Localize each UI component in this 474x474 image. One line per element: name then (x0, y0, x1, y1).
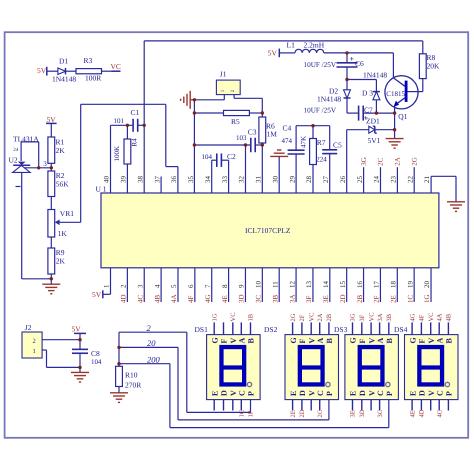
svg-text:18: 18 (389, 281, 397, 289)
svg-text:Q1: Q1 (398, 112, 407, 121)
svg-text:34: 34 (204, 176, 212, 184)
svg-text:39: 39 (120, 176, 128, 184)
svg-text:2A: 2A (317, 313, 324, 321)
svg-text:4B: 4B (153, 295, 161, 304)
svg-text:1G: 1G (211, 313, 218, 321)
svg-text:2E: 2E (290, 410, 297, 417)
svg-text:4E: 4E (221, 295, 229, 303)
svg-text:1K: 1K (58, 229, 68, 238)
svg-text:R4: R4 (131, 138, 139, 147)
svg-text:J2: J2 (25, 323, 32, 332)
svg-text:16: 16 (356, 281, 364, 289)
svg-text:29: 29 (288, 176, 296, 184)
svg-text:20K: 20K (427, 61, 441, 70)
svg-text:2: 2 (33, 338, 36, 345)
svg-text:B: B (445, 338, 454, 344)
svg-text:3F: 3F (359, 314, 366, 321)
svg-text:2E: 2E (389, 295, 397, 303)
svg-text:27: 27 (322, 176, 330, 184)
svg-text:ICL7107CPLZ: ICL7107CPLZ (245, 226, 291, 235)
svg-text:2D: 2D (299, 409, 306, 417)
svg-text:3F: 3F (305, 296, 313, 304)
svg-text:12: 12 (288, 281, 296, 289)
svg-text:10UF /25V: 10UF /25V (304, 61, 337, 69)
svg-text:474: 474 (282, 137, 293, 145)
svg-text:1N4148: 1N4148 (52, 74, 76, 83)
svg-text:DS4: DS4 (394, 325, 408, 334)
svg-text:100R: 100R (85, 74, 101, 83)
svg-text:2.2mH: 2.2mH (304, 40, 325, 49)
svg-text:13: 13 (305, 281, 313, 289)
svg-text:1M: 1M (267, 129, 278, 138)
svg-text:4B: 4B (446, 313, 453, 321)
svg-text:U 1: U 1 (96, 184, 107, 193)
svg-text:3C: 3C (377, 410, 384, 418)
svg-text:B: B (325, 338, 334, 344)
svg-text:A: A (376, 338, 385, 344)
svg-text:5V: 5V (268, 49, 278, 58)
svg-text:2K: 2K (56, 257, 66, 266)
svg-text:P: P (247, 391, 256, 396)
svg-text:24: 24 (13, 147, 19, 153)
svg-text:VC: VC (368, 312, 375, 321)
svg-text:3B: 3B (271, 295, 279, 304)
svg-text:26: 26 (339, 176, 347, 184)
svg-text:C: C (316, 390, 325, 396)
svg-text:L1: L1 (287, 40, 296, 49)
svg-text:22: 22 (406, 176, 414, 184)
svg-text:5: 5 (170, 284, 178, 288)
svg-text:17: 17 (373, 281, 381, 289)
svg-text:VC: VC (428, 312, 435, 321)
svg-text:4G: 4G (204, 294, 212, 303)
svg-text:C5: C5 (333, 140, 342, 149)
svg-text:4A: 4A (170, 294, 178, 303)
svg-text:3D: 3D (238, 294, 246, 303)
svg-text:D: D (220, 390, 229, 396)
svg-text:P: P (385, 391, 394, 396)
svg-text:37: 37 (153, 176, 161, 184)
svg-text:19: 19 (406, 281, 414, 289)
svg-text:C: C (435, 390, 444, 396)
svg-text:20: 20 (423, 281, 431, 289)
svg-text:4D: 4D (419, 409, 426, 417)
svg-text:F: F (418, 339, 427, 344)
svg-text:3A: 3A (288, 294, 296, 303)
svg-text:C3: C3 (248, 127, 257, 136)
svg-text:103: 103 (236, 134, 247, 142)
svg-text:R7: R7 (317, 138, 326, 147)
svg-text:VC: VC (230, 312, 237, 321)
svg-text:C: C (376, 390, 385, 396)
svg-text:3D: 3D (359, 409, 366, 417)
svg-text:40: 40 (103, 176, 111, 184)
svg-text:100K: 100K (113, 146, 121, 162)
svg-text:4: 4 (153, 284, 161, 288)
svg-text:101: 101 (114, 117, 125, 125)
svg-text:DS1: DS1 (195, 325, 209, 334)
svg-text:2B: 2B (356, 295, 364, 304)
svg-text:D: D (418, 390, 427, 396)
svg-text:U2: U2 (9, 155, 18, 164)
svg-text:2G: 2G (290, 313, 297, 321)
svg-text:33: 33 (221, 176, 229, 184)
svg-text:5V1: 5V1 (368, 136, 381, 145)
svg-text:ZD1: ZD1 (366, 117, 380, 126)
svg-text:R3: R3 (84, 56, 93, 65)
svg-text:1C: 1C (406, 295, 414, 304)
svg-text:2F: 2F (373, 296, 381, 304)
svg-text:C1815: C1815 (386, 90, 405, 98)
svg-text:104: 104 (202, 153, 213, 161)
svg-text:2: 2 (120, 284, 128, 288)
svg-text:2G: 2G (410, 157, 418, 166)
svg-text:1N4148: 1N4148 (363, 70, 387, 79)
svg-text:104: 104 (91, 358, 102, 366)
svg-text:3E: 3E (350, 410, 357, 417)
svg-text:C4: C4 (283, 123, 292, 132)
svg-text:C6: C6 (355, 59, 364, 68)
svg-text:5V: 5V (72, 324, 82, 333)
svg-text:3C: 3C (255, 295, 263, 304)
svg-text:E: E (289, 391, 298, 396)
svg-text:2A: 2A (394, 157, 402, 166)
svg-text:5V: 5V (37, 66, 47, 75)
svg-text:D 3: D 3 (362, 88, 373, 97)
svg-text:47K: 47K (299, 136, 307, 148)
svg-text:C2: C2 (227, 152, 236, 161)
svg-text:DS3: DS3 (334, 325, 348, 334)
svg-text:10: 10 (255, 281, 263, 289)
svg-text:VR1: VR1 (60, 209, 74, 218)
svg-text:2D: 2D (339, 294, 347, 303)
svg-text:11: 11 (271, 281, 279, 288)
svg-text:F: F (298, 339, 307, 344)
svg-text:200: 200 (147, 355, 161, 365)
svg-text:1B: 1B (248, 313, 255, 321)
svg-text:35: 35 (187, 176, 195, 184)
svg-text:R5: R5 (231, 117, 240, 126)
svg-text:4G: 4G (409, 313, 416, 321)
svg-text:D1: D1 (59, 57, 68, 66)
svg-text:21: 21 (423, 176, 431, 184)
svg-text:3G: 3G (350, 313, 357, 321)
svg-text:2K: 2K (56, 146, 66, 155)
svg-text:4F: 4F (187, 296, 195, 304)
svg-text:A: A (435, 338, 444, 344)
svg-text:4E: 4E (409, 410, 416, 417)
svg-text:28: 28 (305, 176, 313, 184)
svg-text:B: B (247, 338, 256, 344)
svg-text:P: P (325, 391, 334, 396)
svg-text:24: 24 (373, 176, 381, 184)
svg-text:38: 38 (136, 176, 144, 184)
svg-text:4F: 4F (419, 314, 426, 321)
svg-text:3G: 3G (360, 157, 368, 166)
svg-text:20: 20 (147, 338, 156, 348)
svg-text:VC: VC (111, 62, 121, 71)
svg-text:8: 8 (221, 284, 229, 288)
svg-text:36: 36 (170, 176, 178, 184)
svg-text:25: 25 (356, 176, 364, 184)
svg-text:TL431A: TL431A (13, 134, 39, 143)
svg-text:3B: 3B (386, 313, 393, 321)
svg-text:R10: R10 (125, 370, 138, 379)
svg-text:9: 9 (238, 284, 246, 288)
svg-text:15: 15 (339, 281, 347, 289)
svg-text:2F: 2F (299, 314, 306, 321)
svg-text:5V: 5V (47, 115, 57, 124)
svg-text:1N4148: 1N4148 (317, 94, 341, 103)
svg-text:56K: 56K (56, 180, 70, 189)
svg-text:+: + (350, 55, 355, 64)
svg-text:2C: 2C (317, 410, 324, 418)
svg-text:6: 6 (187, 284, 195, 288)
svg-text:4C: 4C (136, 295, 144, 304)
svg-text:4D: 4D (120, 294, 128, 303)
svg-text:E: E (349, 391, 358, 396)
svg-text:F: F (358, 339, 367, 344)
svg-text:14: 14 (322, 281, 330, 289)
svg-text:7: 7 (204, 284, 212, 288)
svg-text:A: A (238, 338, 247, 344)
svg-text:1: 1 (103, 284, 111, 288)
svg-text:3E: 3E (322, 295, 330, 303)
svg-text:C: C (238, 390, 247, 396)
svg-text:J1: J1 (220, 69, 227, 78)
svg-text:VC: VC (308, 312, 315, 321)
svg-text:4C: 4C (436, 410, 443, 418)
svg-text:3A: 3A (377, 313, 384, 321)
svg-text:C1: C1 (131, 108, 140, 117)
svg-text:E: E (408, 391, 417, 396)
svg-text:3: 3 (43, 160, 47, 168)
svg-text:5V: 5V (92, 290, 102, 299)
svg-text:4A: 4A (436, 313, 443, 321)
svg-text:30: 30 (271, 176, 279, 184)
svg-text:D: D (298, 390, 307, 396)
svg-text:1: 1 (33, 348, 36, 355)
svg-text:A: A (316, 338, 325, 344)
svg-text:32: 32 (238, 176, 246, 184)
svg-text:23: 23 (389, 176, 397, 184)
svg-text:31: 31 (255, 176, 263, 184)
svg-text:1C: 1C (239, 410, 246, 418)
svg-text:B: B (385, 338, 394, 344)
svg-text:10UF /25V: 10UF /25V (304, 106, 337, 114)
svg-text:DS2: DS2 (264, 325, 278, 334)
svg-text:270R: 270R (125, 380, 141, 389)
svg-text:1P: 1P (248, 410, 255, 417)
svg-text:E: E (210, 391, 219, 396)
svg-text:G: G (349, 337, 358, 343)
svg-text:224: 224 (316, 155, 327, 163)
svg-text:P: P (445, 391, 454, 396)
svg-text:F: F (220, 339, 229, 344)
svg-text:G: G (408, 337, 417, 343)
svg-text:2B: 2B (326, 313, 333, 321)
svg-text:G: G (289, 337, 298, 343)
svg-text:D: D (358, 390, 367, 396)
svg-text:G: G (210, 337, 219, 343)
svg-text:C8: C8 (91, 349, 100, 358)
svg-text:1G: 1G (423, 294, 431, 303)
svg-text:3: 3 (136, 284, 144, 288)
svg-text:2C: 2C (377, 157, 385, 166)
